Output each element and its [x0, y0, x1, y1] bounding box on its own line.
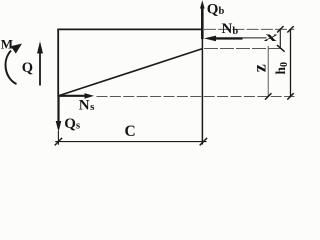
- tick z bottom: [265, 93, 271, 99]
- tick C right: [200, 138, 207, 146]
- tick h0 top: [287, 26, 293, 32]
- dimension line z: [267, 46, 269, 97]
- extension line mid right: [204, 47, 284, 49]
- tick C left: [55, 138, 62, 146]
- beam top edge: [57, 28, 203, 30]
- svg-text:C: C: [125, 123, 136, 140]
- force Ns (horizontal arrow right at lower left corner): [59, 93, 95, 99]
- dimension line h0: [290, 29, 292, 96]
- inclined crack line: [59, 49, 203, 96]
- svg-text:x: x: [263, 30, 277, 44]
- extension line below Qs: [57, 131, 59, 145]
- svg-text:Q: Q: [22, 60, 33, 76]
- tick x top: [277, 26, 283, 32]
- beam right edge: [201, 29, 203, 144]
- label x (rotated): [263, 30, 277, 44]
- svg-text:M: M: [1, 36, 13, 51]
- force Q (vertical arrow up, left side): [37, 41, 43, 85]
- force Qs (vertical arrow down at lower left corner): [56, 96, 62, 133]
- extension line top right: [204, 28, 294, 30]
- force Nb (horizontal arrow pointing left): [204, 36, 267, 42]
- dimension line C: [55, 141, 206, 143]
- dimension line x: [279, 29, 281, 48]
- extension line bottom right: [97, 95, 295, 97]
- tick x bottom: [277, 45, 285, 52]
- beam left edge: [57, 29, 59, 97]
- svg-text:z: z: [250, 64, 270, 72]
- force Qb (vertical arrow up at top right): [200, 0, 205, 39]
- tick h0 bottom: [287, 93, 293, 99]
- moment M (curved arrow, left side): [6, 44, 22, 85]
